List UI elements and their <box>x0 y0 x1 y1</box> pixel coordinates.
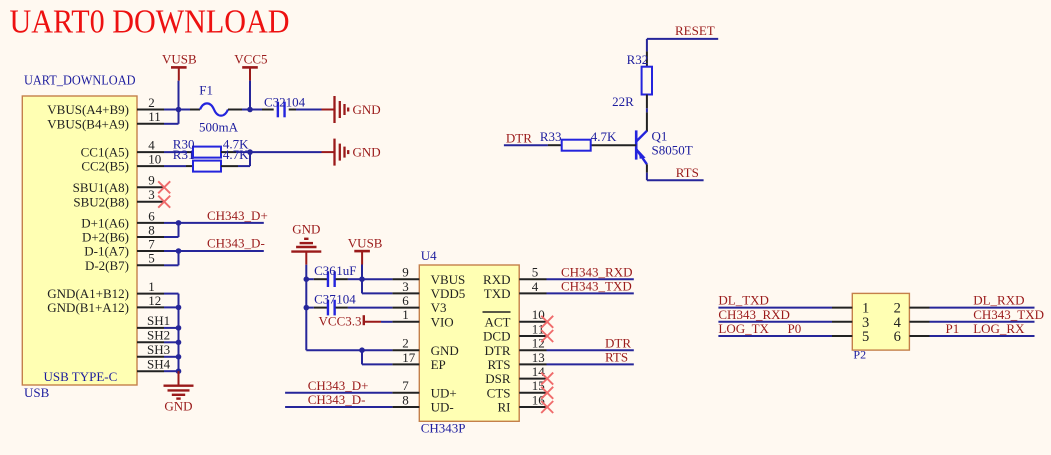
svg-text:GND(A1+B12): GND(A1+B12) <box>47 286 129 301</box>
svg-text:P2: P2 <box>853 348 866 362</box>
svg-text:UD+: UD+ <box>431 385 457 400</box>
svg-text:9: 9 <box>402 265 409 280</box>
svg-text:CH343_D+: CH343_D+ <box>308 378 369 393</box>
svg-text:GND: GND <box>431 343 459 358</box>
svg-text:RESET: RESET <box>675 23 715 38</box>
svg-text:104: 104 <box>336 291 356 306</box>
svg-text:RI: RI <box>498 400 511 415</box>
svg-text:SH4: SH4 <box>147 356 171 371</box>
svg-text:D+1(A6): D+1(A6) <box>81 216 129 231</box>
svg-text:CC1(A5): CC1(A5) <box>81 145 129 160</box>
svg-text:DSR: DSR <box>485 371 511 386</box>
svg-text:12: 12 <box>532 336 545 351</box>
svg-text:22R: 22R <box>612 94 634 109</box>
svg-text:R31: R31 <box>173 147 195 162</box>
svg-text:DL_TXD: DL_TXD <box>718 293 769 308</box>
svg-text:12: 12 <box>148 293 161 308</box>
svg-text:8: 8 <box>148 222 155 237</box>
svg-text:VBUS: VBUS <box>431 272 466 287</box>
svg-text:GND: GND <box>353 145 381 160</box>
svg-text:SH3: SH3 <box>147 342 170 357</box>
svg-text:TXD: TXD <box>484 286 511 301</box>
svg-text:5: 5 <box>148 251 155 266</box>
svg-text:R32: R32 <box>627 52 649 67</box>
svg-text:EP: EP <box>431 357 446 372</box>
svg-text:D-2(B7): D-2(B7) <box>85 258 129 273</box>
svg-text:D+2(B6): D+2(B6) <box>82 230 129 245</box>
svg-text:U4: U4 <box>421 248 437 263</box>
svg-text:R33: R33 <box>540 129 562 144</box>
svg-text:DTR: DTR <box>506 131 532 146</box>
svg-text:VUSB: VUSB <box>348 235 383 250</box>
svg-text:9: 9 <box>148 173 155 188</box>
svg-text:LOG_TX: LOG_TX <box>718 321 769 336</box>
svg-text:UART0 DOWNLOAD: UART0 DOWNLOAD <box>10 3 290 40</box>
svg-text:1: 1 <box>402 307 409 322</box>
svg-text:2: 2 <box>148 95 155 110</box>
svg-text:3: 3 <box>148 187 155 202</box>
svg-text:DTR: DTR <box>605 335 631 350</box>
svg-text:VBUS(B4+A9): VBUS(B4+A9) <box>47 116 129 131</box>
svg-text:1uF: 1uF <box>336 263 356 278</box>
svg-text:GND: GND <box>353 102 381 117</box>
svg-text:V3: V3 <box>431 300 447 315</box>
svg-text:RTS: RTS <box>487 357 510 372</box>
svg-text:4.7K: 4.7K <box>591 129 617 144</box>
svg-text:RXD: RXD <box>483 272 510 287</box>
svg-text:6: 6 <box>148 208 155 223</box>
svg-text:6: 6 <box>402 293 409 308</box>
svg-text:SBU2(B8): SBU2(B8) <box>73 194 129 209</box>
svg-text:10: 10 <box>532 307 545 322</box>
svg-text:CH343_D-: CH343_D- <box>308 392 366 407</box>
svg-text:4: 4 <box>148 138 155 153</box>
svg-text:3: 3 <box>402 279 409 294</box>
svg-text:10: 10 <box>148 152 161 167</box>
svg-text:104: 104 <box>286 94 306 109</box>
svg-text:11: 11 <box>148 109 161 124</box>
svg-text:2: 2 <box>402 336 409 351</box>
svg-text:CTS: CTS <box>487 385 511 400</box>
svg-text:CH343_D+: CH343_D+ <box>207 208 268 223</box>
svg-text:SBU1(A8): SBU1(A8) <box>73 180 129 195</box>
svg-text:C37: C37 <box>314 291 336 306</box>
svg-text:P0: P0 <box>788 321 802 336</box>
svg-text:Q1: Q1 <box>652 129 668 144</box>
svg-text:GND: GND <box>292 221 320 236</box>
svg-text:C32: C32 <box>264 94 286 109</box>
svg-text:VIO: VIO <box>431 314 454 329</box>
svg-text:5: 5 <box>532 265 539 280</box>
svg-text:5: 5 <box>862 329 869 345</box>
svg-text:4: 4 <box>532 279 539 294</box>
svg-text:VCC3.3: VCC3.3 <box>319 313 362 328</box>
svg-text:17: 17 <box>402 350 416 365</box>
svg-text:UD-: UD- <box>431 400 454 415</box>
svg-text:6: 6 <box>894 329 901 345</box>
svg-text:LOG_RX: LOG_RX <box>973 321 1025 336</box>
svg-text:VDD5: VDD5 <box>431 286 466 301</box>
svg-text:RTS: RTS <box>605 350 628 365</box>
svg-text:S8050T: S8050T <box>652 142 693 157</box>
svg-text:16: 16 <box>532 392 546 407</box>
svg-text:CH343_D-: CH343_D- <box>207 236 265 251</box>
svg-text:DTR: DTR <box>485 343 511 358</box>
svg-text:CC2(B5): CC2(B5) <box>81 159 129 174</box>
svg-text:14: 14 <box>532 364 546 379</box>
svg-text:7: 7 <box>402 378 409 393</box>
svg-text:VUSB: VUSB <box>162 52 197 67</box>
svg-text:GND: GND <box>164 399 192 414</box>
svg-text:1: 1 <box>148 279 155 294</box>
svg-text:CH343_TXD: CH343_TXD <box>973 307 1044 322</box>
svg-text:VCC5: VCC5 <box>234 52 267 67</box>
svg-text:CH343_RXD: CH343_RXD <box>718 307 790 322</box>
svg-text:USB TYPE-C: USB TYPE-C <box>44 369 118 384</box>
svg-text:DL_RXD: DL_RXD <box>973 293 1024 308</box>
svg-text:15: 15 <box>532 378 545 393</box>
svg-text:11: 11 <box>532 321 545 336</box>
svg-text:SH2: SH2 <box>147 328 170 343</box>
svg-text:ACT: ACT <box>485 314 511 329</box>
svg-text:13: 13 <box>532 350 545 365</box>
svg-text:SH1: SH1 <box>147 313 170 328</box>
svg-text:DCD: DCD <box>483 329 510 344</box>
svg-text:CH343_TXD: CH343_TXD <box>561 279 632 294</box>
svg-text:C36: C36 <box>314 263 336 278</box>
svg-text:500mA: 500mA <box>199 119 239 134</box>
svg-text:7: 7 <box>148 236 155 251</box>
svg-text:P1: P1 <box>946 321 960 336</box>
svg-text:D-1(A7): D-1(A7) <box>84 244 129 259</box>
svg-text:8: 8 <box>402 392 409 407</box>
svg-text:CH343_RXD: CH343_RXD <box>561 264 633 279</box>
svg-text:GND(B1+A12): GND(B1+A12) <box>47 300 129 315</box>
svg-text:USB: USB <box>24 385 50 400</box>
svg-text:4.7K: 4.7K <box>223 147 249 162</box>
svg-text:VBUS(A4+B9): VBUS(A4+B9) <box>47 102 129 117</box>
svg-text:RTS: RTS <box>676 165 699 180</box>
svg-text:CH343P: CH343P <box>421 420 466 435</box>
svg-text:F1: F1 <box>199 83 213 98</box>
svg-text:UART_DOWNLOAD: UART_DOWNLOAD <box>24 73 136 88</box>
